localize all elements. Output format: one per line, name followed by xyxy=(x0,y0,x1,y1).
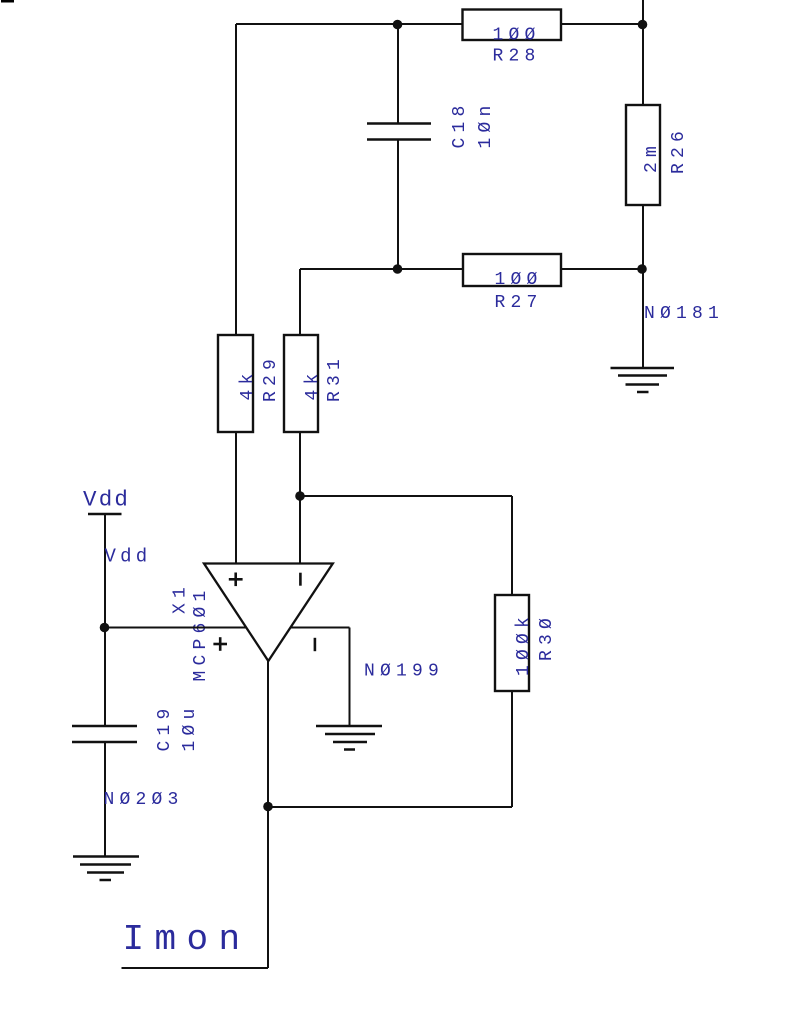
net label N0203 xyxy=(104,790,184,810)
op-amp U1 triangle xyxy=(204,564,333,662)
net label N0199 xyxy=(364,662,444,682)
svg-text:R31: R31 xyxy=(325,354,345,402)
net label Imon xyxy=(123,919,251,960)
junction dot at (268,806) xyxy=(263,802,273,812)
svg-text:Vdd: Vdd xyxy=(105,546,152,568)
wire top horizontal net y=24 xyxy=(236,23,643,25)
value 100 (R28) xyxy=(493,26,541,46)
wire x=300 R31 bottom to op-amp xyxy=(299,432,301,564)
op-amp - input mark xyxy=(299,573,302,586)
wire V+ supply y=627.5 xyxy=(105,627,247,629)
wire Vdd rail x=105 xyxy=(104,514,106,726)
wire vertical x=236 down to R29 xyxy=(235,24,237,335)
svg-text:1ØØk: 1ØØk xyxy=(514,612,534,676)
label 10n xyxy=(476,100,496,148)
op-amp + input mark xyxy=(229,573,243,587)
svg-text:C18: C18 xyxy=(450,100,470,148)
junction dot at (642,269) xyxy=(637,264,647,274)
wire op-amp output x=268 xyxy=(267,661,269,968)
junction dot at (643,24) xyxy=(638,20,648,30)
wire vertical x=512 down to R30 xyxy=(511,496,513,595)
refdes X1 xyxy=(171,582,191,614)
junction dot at (398,269) xyxy=(393,264,403,274)
wire feedback bottom y=806.5 xyxy=(268,806,512,808)
Vdd symbol text xyxy=(83,487,130,513)
op-amp V- mark xyxy=(314,638,317,651)
refdes R31 xyxy=(325,354,345,402)
resistor R28 xyxy=(463,10,562,41)
refdes R30 xyxy=(537,613,557,661)
refdes R28 xyxy=(493,47,541,67)
wire feedback top y=496 xyxy=(300,495,512,497)
wire x=236 R29 bottom to op-amp xyxy=(235,432,237,564)
label C18 xyxy=(450,100,470,148)
svg-text:NØ181: NØ181 xyxy=(644,304,724,324)
svg-text:R28: R28 xyxy=(493,47,541,67)
capacitor C18 plates xyxy=(367,124,431,140)
ground N0203 xyxy=(73,857,139,881)
resistor R31 xyxy=(284,335,318,432)
wire vertical x=643 from top edge through R26 top xyxy=(642,0,644,105)
capacitor C19 plates xyxy=(72,726,137,742)
value MCP601 xyxy=(191,585,211,681)
resistor R26 xyxy=(626,105,660,205)
svg-text:Imon: Imon xyxy=(123,919,251,960)
refdes R29 xyxy=(261,354,281,402)
svg-text:X1: X1 xyxy=(171,582,191,614)
ground N0199 xyxy=(316,726,382,750)
resistor R30 xyxy=(495,595,529,691)
stray scan mark top-left xyxy=(1,0,14,3)
value 4k (R29) xyxy=(238,368,258,400)
value 100k (R30) xyxy=(514,612,534,676)
svg-text:1ØØ: 1ØØ xyxy=(493,26,541,46)
svg-text:NØ2Ø3: NØ2Ø3 xyxy=(104,790,184,810)
refdes R26 xyxy=(669,126,689,174)
resistor R27 xyxy=(463,254,561,286)
value 100 (R27) xyxy=(495,270,543,290)
svg-text:4k: 4k xyxy=(238,368,258,400)
label C19 xyxy=(155,703,175,751)
wire vertical x=643 R26 bottom to node xyxy=(642,205,644,368)
net label N0181 xyxy=(644,304,724,324)
label 10u xyxy=(180,703,200,751)
junction dot at (300,496) xyxy=(295,491,305,501)
svg-text:R27: R27 xyxy=(495,293,543,313)
wire vertical x=398 down to C18 xyxy=(397,24,399,123)
wire middle horizontal net y=269 xyxy=(300,268,643,270)
refdes R27 xyxy=(495,293,543,313)
wire vertical x=398 from C18 down to y=269 xyxy=(397,140,399,270)
wire corner x=300 from y=269 down to R31 xyxy=(299,269,301,335)
wire V- supply y=627.5 to ground xyxy=(291,628,350,727)
resistor R29 xyxy=(218,335,253,432)
svg-text:2m: 2m xyxy=(642,141,662,173)
svg-text:MCP6Ø1: MCP6Ø1 xyxy=(191,585,211,681)
svg-text:1Øu: 1Øu xyxy=(180,703,200,751)
wire vertical x=512 R30 bottom xyxy=(511,691,513,807)
value 2m (R26) xyxy=(642,141,662,173)
svg-text:R26: R26 xyxy=(669,126,689,174)
svg-text:R3Ø: R3Ø xyxy=(537,613,557,661)
ground N0181 xyxy=(611,368,675,392)
Vdd power symbol xyxy=(88,513,122,516)
value 4k (R31) xyxy=(303,368,323,400)
svg-text:NØ199: NØ199 xyxy=(364,662,444,682)
junction dot at (104,627.5) xyxy=(100,623,110,633)
wire x=105 C19 to ground xyxy=(104,742,106,857)
svg-text:4k: 4k xyxy=(303,368,323,400)
net label Vdd xyxy=(105,546,152,568)
svg-text:1ØØ: 1ØØ xyxy=(495,270,543,290)
junction dot at (398,24) xyxy=(393,20,403,30)
svg-text:1Øn: 1Øn xyxy=(476,100,496,148)
wire Imon y=968 xyxy=(122,967,269,969)
op-amp V+ mark xyxy=(213,637,227,651)
svg-text:Vdd: Vdd xyxy=(83,487,130,513)
svg-text:C19: C19 xyxy=(155,703,175,751)
svg-text:R29: R29 xyxy=(261,354,281,402)
